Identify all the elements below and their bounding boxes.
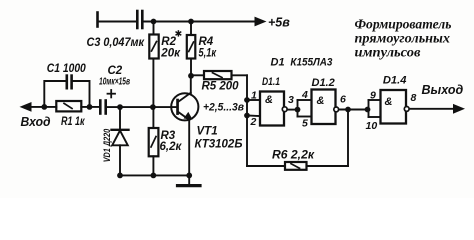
node base/R2/R3 junction (150, 104, 156, 110)
svg-text:+2,5...3в: +2,5...3в (203, 102, 244, 114)
wire pin 2 stub (247, 115, 260, 118)
svg-text:6,2к: 6,2к (160, 141, 183, 153)
svg-text:&: & (265, 94, 273, 106)
svg-text:3: 3 (288, 94, 294, 106)
transistor VT1 (171, 76, 198, 176)
svg-text:К155ЛА3: К155ЛА3 (290, 57, 332, 69)
wire D1.2 out (340, 109, 369, 111)
wire R1 to C2 (81, 106, 99, 108)
+5v arrowhead (255, 17, 267, 27)
wire C1 loop (44, 81, 66, 107)
wire R6 row left (247, 165, 285, 167)
wire gate input vertical (246, 75, 248, 166)
wire pin 1 stub (247, 99, 260, 101)
svg-text:D1.1: D1.1 (262, 76, 280, 88)
terminal stub left of C3 (96, 13, 99, 27)
op gate D1.2 (312, 90, 336, 125)
svg-text:10: 10 (366, 120, 378, 132)
node D1.4 input junction (365, 107, 371, 113)
svg-text:Формирователь: Формирователь (355, 18, 452, 33)
ground (178, 175, 201, 185)
svg-text:Вход: Вход (21, 114, 51, 129)
resistor R2 (149, 22, 158, 107)
wire R6 row right (307, 165, 349, 167)
svg-text:КТ3102Б: КТ3102Б (195, 139, 243, 151)
wire pins 9/10 vertical (368, 100, 370, 117)
resistor R1 (56, 101, 81, 111)
output arrowhead (453, 104, 465, 114)
svg-text:C3 0,047мк: C3 0,047мк (87, 37, 146, 49)
svg-text:+5в: +5в (268, 16, 290, 30)
resistor R4 (187, 22, 196, 77)
wire pins 4/5 vertical (297, 100, 299, 117)
node D1.2 input junction (295, 107, 301, 113)
wire C2 to base (107, 106, 177, 108)
svg-text:прямоугольных: прямоугольных (355, 31, 451, 46)
node junction rail/R4 (188, 19, 194, 25)
svg-text:D1: D1 (271, 57, 285, 69)
svg-text:8: 8 (411, 92, 417, 104)
wire bottom ground rail (120, 174, 189, 176)
input arrowhead Вход (20, 102, 32, 112)
svg-text:R5 200: R5 200 (202, 81, 240, 93)
capacitor C1 (67, 76, 72, 89)
wire pin 10 stub (369, 116, 381, 118)
node C1 left junction (41, 104, 47, 110)
svg-text:6: 6 (340, 94, 346, 106)
svg-text:D1.4: D1.4 (383, 75, 407, 87)
resistor R3 (149, 107, 159, 175)
svg-text:C1 1000: C1 1000 (47, 63, 87, 75)
svg-text:10мк×15в: 10мк×15в (99, 76, 130, 88)
R2 asterisk (176, 30, 182, 36)
node junction C3/R2 (151, 19, 157, 25)
svg-text:R2: R2 (161, 36, 176, 48)
svg-text:&: & (317, 95, 325, 107)
svg-text:9: 9 (370, 90, 376, 102)
wire top rail left (98, 21, 137, 23)
wire R6 vertical from pin 6 node (347, 110, 349, 167)
svg-text:R6 2,2к: R6 2,2к (272, 150, 315, 162)
node pin1 junction (244, 97, 250, 103)
node R6 top junction (345, 107, 351, 113)
resistor R5 (191, 71, 247, 79)
node C1 right junction (87, 104, 93, 110)
node VD1 bottom junction (117, 173, 123, 179)
resistor R6 (285, 162, 307, 170)
svg-text:Выход: Выход (422, 83, 464, 97)
svg-text:2: 2 (250, 116, 257, 128)
op gate D1.1 (260, 92, 284, 126)
node collector/R4/R5 junction (188, 73, 194, 79)
wire output (410, 108, 456, 110)
svg-text:&: & (385, 96, 393, 108)
node pin2 junction (244, 113, 250, 119)
wire input line (29, 106, 56, 108)
svg-text:1: 1 (251, 90, 257, 102)
svg-text:импульсов: импульсов (355, 46, 422, 61)
svg-text:5,1к: 5,1к (199, 48, 217, 60)
capacitor C3 (137, 11, 142, 28)
wire pin 9 stub (369, 99, 381, 101)
C2 plus sign (108, 90, 116, 97)
node emitter/rail junction (186, 173, 192, 179)
wire pin 5 stub (298, 116, 312, 118)
wire pin 3 to D1.2 input (288, 109, 297, 111)
op gate D1.4 (381, 90, 407, 124)
svg-text:5: 5 (302, 118, 308, 130)
svg-text:20к: 20к (160, 48, 181, 60)
svg-text:4: 4 (301, 89, 308, 101)
wire top rail to +5v arrow (144, 21, 258, 23)
svg-text:D1.2: D1.2 (312, 77, 335, 89)
wire pin 4 stub (298, 99, 312, 101)
node R3 bottom junction (151, 173, 157, 179)
capacitor C2 (100, 101, 105, 114)
svg-text:R1 1к: R1 1к (61, 116, 85, 128)
diode VD1 (112, 107, 129, 175)
svg-text:VT1: VT1 (197, 126, 218, 138)
svg-text:R4: R4 (199, 36, 214, 48)
svg-text:VD1 Д220: VD1 Д220 (102, 128, 113, 162)
node VD1 junction (117, 104, 123, 110)
